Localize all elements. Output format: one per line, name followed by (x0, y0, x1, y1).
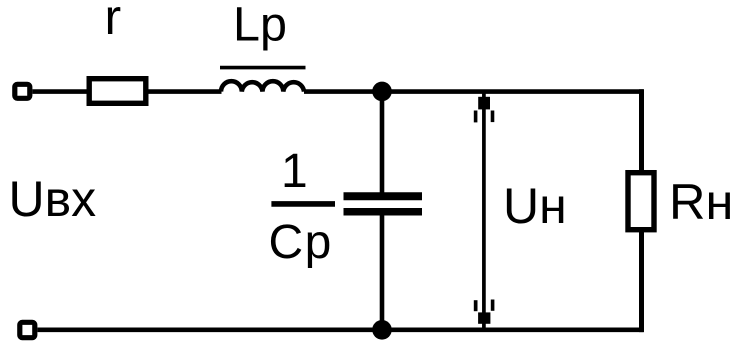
node B (bottom junction dot) (372, 320, 392, 340)
node A (top junction dot) (372, 82, 392, 102)
resistor Rn (628, 173, 654, 230)
fraction bar (271, 201, 335, 207)
wire Rn down to bottom-right corner (639, 232, 644, 332)
input terminal top-left (15, 84, 30, 98)
svg-text:Uн: Uн (503, 178, 567, 234)
capacitor Cp bottom plate (344, 208, 423, 216)
input terminal bottom-left (20, 322, 35, 337)
svg-text:r: r (105, 0, 122, 45)
svg-text:1: 1 (281, 145, 308, 198)
capacitor Cp top plate (344, 192, 423, 200)
wire node A down to capacitor (380, 91, 385, 192)
svg-text:Lp: Lp (233, 0, 287, 52)
wire top-right corner down to Rn (639, 89, 644, 170)
Un arrowhead top (474, 97, 495, 123)
Un measuring arrow shaft (482, 93, 486, 328)
svg-text:Uвх: Uвх (9, 171, 97, 227)
svg-text:Cp: Cp (269, 216, 333, 269)
Un arrowhead bottom (474, 300, 495, 324)
inductor Lp core bar (220, 66, 306, 70)
svg-text:Rн: Rн (669, 173, 733, 230)
wire node A to top-right corner (382, 89, 644, 94)
inductor Lp coils (221, 81, 304, 91)
wire inductor to node A (304, 89, 382, 94)
wire resistor to inductor (149, 89, 222, 94)
bottom wire (return rail) (38, 327, 644, 332)
wire capacitor to bottom node (380, 216, 385, 331)
resistor r (89, 79, 146, 104)
wire terminal to resistor r (33, 89, 88, 94)
